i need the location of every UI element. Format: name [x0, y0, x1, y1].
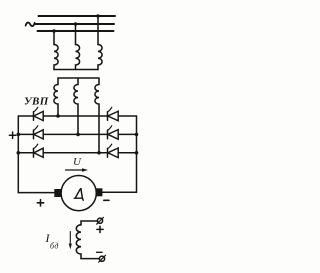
svg-text:U: U — [73, 156, 82, 168]
svg-text:УВП: УВП — [24, 96, 49, 108]
svg-text:бд: бд — [50, 241, 59, 250]
